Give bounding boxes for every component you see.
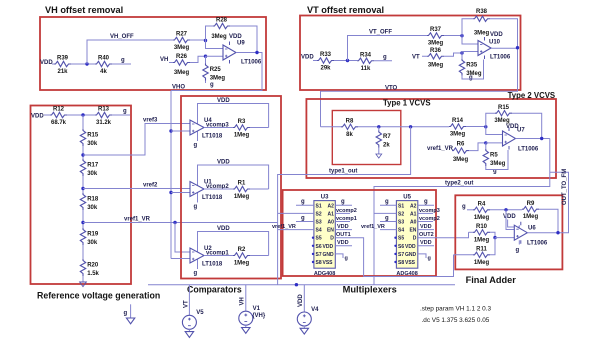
svg-text:g: g [301, 215, 305, 221]
svg-text:VDD: VDD [298, 294, 304, 307]
net label OUT2 [419, 232, 434, 238]
wire R35 to U10 V- [462, 60, 484, 80]
resistor R12 [50, 107, 67, 126]
net label VT_OFF [369, 30, 392, 36]
svg-text:VDD: VDD [490, 32, 503, 38]
wire R5 to U7 V- [486, 150, 508, 170]
svg-text:VT offset removal: VT offset removal [307, 5, 384, 15]
svg-text:vref1_VR: vref1_VR [272, 224, 296, 230]
net label VDD supply U6 [503, 214, 516, 220]
svg-text:29k: 29k [320, 66, 331, 72]
voltage source V4 [297, 307, 319, 326]
svg-text:A1: A1 [327, 211, 334, 217]
net label OUT1 [336, 232, 351, 238]
wire node A to U9 in+ [206, 41, 224, 49]
op-amp U9 [223, 41, 262, 66]
svg-text:A2: A2 [410, 203, 417, 209]
svg-text:3Meg: 3Meg [174, 45, 190, 51]
net label VT rotated [183, 300, 189, 308]
voltage source V5 [182, 310, 204, 329]
wire R40 to g [112, 63, 131, 65]
wire VDD loop U2 [198, 232, 269, 270]
net label VH rotated [240, 297, 246, 305]
svg-text:3Meg: 3Meg [174, 70, 190, 76]
wire U7 output [516, 138, 550, 140]
wire VDD to R12 [44, 114, 50, 116]
wire g stub U3 A2 [335, 204, 352, 206]
wire R2 to loop [250, 255, 269, 257]
svg-text:R17: R17 [87, 163, 99, 169]
svg-text:g: g [194, 271, 198, 277]
svg-text:R6: R6 [457, 142, 465, 148]
wire R37 to node C [444, 35, 462, 37]
svg-text:Type 2 VCVS: Type 2 VCVS [508, 91, 556, 100]
svg-text:VSS: VSS [405, 260, 416, 266]
svg-text:LT1006: LT1006 [241, 60, 262, 66]
junction R39-R40 [85, 62, 88, 65]
wire vcomp3 stub U5 A1 [418, 212, 433, 214]
svg-text:g: g [341, 199, 345, 205]
wire U9 output and VHO net [171, 53, 262, 91]
net label VDD U3 pin6 [337, 240, 349, 246]
svg-text:2k: 2k [383, 143, 390, 149]
svg-text:g: g [194, 143, 198, 149]
svg-text:R11: R11 [476, 247, 487, 253]
resistor R7 [376, 131, 391, 149]
junction U7 output [540, 137, 543, 140]
net label VT [412, 55, 420, 61]
wire R20 to ground [82, 276, 84, 282]
wire vref3 net [83, 124, 190, 156]
svg-text:LT1006: LT1006 [490, 55, 511, 61]
svg-text:LT1006: LT1006 [527, 241, 548, 247]
ground net label g below R5 [493, 169, 497, 175]
ground net label g U5 S1 [385, 199, 389, 205]
annotation box Multiplexers [283, 190, 436, 276]
wire R15 to R17 [82, 146, 84, 159]
wire node D to R35 [461, 53, 463, 59]
svg-text:1Meg: 1Meg [234, 261, 250, 267]
svg-text:11k: 11k [361, 66, 371, 72]
wire R15 feedback [486, 113, 542, 138]
svg-text:R15: R15 [87, 133, 99, 139]
svg-text:R2: R2 [238, 247, 246, 253]
svg-text:VT_OFF: VT_OFF [369, 30, 392, 36]
svg-text:S6: S6 [316, 244, 322, 250]
wire V1 to ground [245, 325, 247, 327]
net label VDD U5 pin6 [420, 240, 432, 246]
ground net label g below R35 [469, 75, 473, 81]
wire g stub U3 S1 [296, 204, 314, 206]
resistor R36 [427, 48, 444, 69]
wire R19 to R20 [82, 245, 84, 259]
multiplexer U3 ADG408 [312, 195, 336, 278]
wire node B to R25 [205, 56, 207, 63]
svg-text:VDD: VDD [31, 114, 44, 120]
title Final Adder [466, 275, 517, 285]
wire R13 to g [112, 114, 130, 116]
wire VDD stub U6 [508, 220, 520, 228]
svg-text:A0: A0 [327, 220, 334, 226]
svg-text:R9: R9 [527, 201, 535, 207]
title Reference voltage generation [37, 291, 160, 301]
svg-text:R37: R37 [430, 27, 442, 33]
svg-text:S2: S2 [316, 211, 322, 217]
wire bus to U1 in [171, 192, 190, 194]
wire OUT2 to R10 [469, 231, 474, 233]
resistor R13 [95, 107, 112, 126]
svg-text:EN: EN [327, 228, 334, 234]
wire VT_OFF net [348, 36, 428, 61]
wire VDD loop U4 [198, 104, 269, 142]
svg-text:g: g [124, 311, 128, 317]
annotation box Type 1 VCVS [332, 111, 401, 165]
svg-text:R7: R7 [383, 134, 391, 140]
svg-text:R27: R27 [176, 32, 188, 38]
svg-text:30k: 30k [87, 240, 98, 246]
wire bus to U2 in [171, 258, 190, 260]
svg-text:VDD: VDD [229, 34, 242, 40]
net label VH [160, 57, 168, 63]
net label type2_out [445, 180, 473, 186]
svg-text:g: g [123, 109, 127, 115]
svg-text:3Meg: 3Meg [428, 63, 444, 69]
wire R25 to g [205, 81, 207, 84]
op-amp U6 [514, 222, 548, 247]
svg-text:.dc V5 1.375 3.625 0.05: .dc V5 1.375 3.625 0.05 [422, 317, 490, 324]
svg-text:4k: 4k [100, 69, 107, 75]
resistor R4 [473, 202, 490, 221]
wire OUT1 to R11 [454, 254, 474, 256]
wire VDD stub U5 pin6 [418, 245, 434, 247]
svg-text:U3: U3 [321, 195, 329, 201]
wire VDD stub U3 EN [335, 229, 352, 231]
svg-text:vref1_VR: vref1_VR [124, 217, 151, 223]
wire R17 to R18 [82, 176, 84, 193]
svg-text:D: D [413, 236, 417, 242]
wire R12 node to R15 [82, 115, 84, 129]
net label vref1_VR [427, 146, 454, 152]
svg-text:VH: VH [240, 297, 246, 305]
svg-text:1Meg: 1Meg [523, 214, 539, 220]
wire node E to U7 in+ [486, 127, 503, 135]
net label VHO [172, 85, 185, 91]
net label VDD [301, 55, 314, 61]
net label VDD U5 EN [420, 224, 432, 230]
net label VDD [40, 60, 53, 66]
svg-text:D: D [330, 236, 334, 242]
resistor R11 [473, 247, 490, 266]
svg-text:S4: S4 [316, 228, 322, 234]
net label vref2 [143, 183, 158, 189]
svg-text:1Meg: 1Meg [474, 215, 490, 221]
svg-text:S3: S3 [398, 220, 404, 226]
title Type 1 VCVS [383, 99, 431, 108]
junction R8-R7 [377, 125, 380, 128]
ground net label g U2 [194, 271, 198, 277]
resistor R8 [341, 119, 358, 138]
wire R34 to g [374, 60, 392, 62]
svg-text:3Meg: 3Meg [474, 31, 490, 37]
wire R39 to R40 [71, 63, 95, 65]
junction node B [204, 55, 207, 58]
svg-text:30k: 30k [87, 141, 98, 147]
wire type1_out to U3 S2 [278, 212, 314, 214]
junction bus U4 [169, 129, 172, 132]
resistor R14 [449, 118, 466, 137]
wire V1 to rail [245, 285, 247, 314]
svg-text:R5: R5 [490, 153, 498, 159]
resistor R35 [459, 59, 482, 77]
wire VDD stub U3 pin6 [335, 245, 352, 247]
net label VDD [31, 114, 44, 120]
annotation box Final Adder [455, 195, 562, 269]
svg-text:VT: VT [183, 300, 189, 308]
svg-text:U9: U9 [237, 41, 245, 47]
svg-text:R28: R28 [216, 18, 228, 24]
ground net label g U5 S3 [385, 215, 389, 221]
comparator U4 [190, 118, 229, 140]
svg-text:A1: A1 [410, 211, 417, 217]
svg-text:g: g [301, 199, 305, 205]
junction vref2 tap [81, 187, 84, 190]
wire OUT2 net U5 D [418, 232, 469, 237]
resistor R26 [173, 54, 190, 76]
op-amp U10 [478, 37, 511, 61]
svg-text:U5: U5 [403, 195, 411, 201]
svg-text:S6: S6 [398, 244, 404, 250]
svg-text:Comparators: Comparators [187, 285, 242, 295]
annotation box VT offset removal [300, 16, 521, 91]
svg-text:R39: R39 [57, 56, 69, 62]
ground net label g U3 A2 [341, 199, 345, 205]
resistor R25 [203, 64, 226, 82]
resistor R18 [80, 193, 99, 211]
svg-text:g: g [469, 75, 473, 81]
wire VTO to R8 [321, 126, 342, 128]
resistor R34 [357, 52, 374, 71]
wire VH_OFF net [87, 40, 173, 64]
wire bus to U4 in [171, 130, 190, 132]
svg-text:R25: R25 [210, 67, 222, 73]
svg-text:S5: S5 [398, 236, 404, 242]
net label VTO [385, 85, 398, 91]
ground net label g [383, 55, 387, 61]
svg-text:S8: S8 [316, 260, 322, 266]
svg-text:R20: R20 [87, 263, 99, 269]
wire U6 V- stub [518, 240, 520, 244]
resistor R6 [452, 142, 469, 163]
svg-text:31.2k: 31.2k [96, 120, 112, 126]
net label vref1_VR [124, 217, 151, 223]
annotation box Comparators [181, 96, 281, 279]
resistor R39 [54, 56, 71, 75]
wire V5 to ground [188, 329, 190, 331]
spice directive step [420, 306, 491, 313]
svg-text:VTO: VTO [385, 85, 398, 91]
svg-text:LT1006: LT1006 [518, 147, 539, 153]
svg-text:3Meg: 3Meg [211, 34, 227, 40]
svg-text:V5: V5 [196, 310, 204, 316]
wire VDD to R33 [313, 60, 317, 62]
svg-text:VDD: VDD [323, 244, 334, 250]
svg-text:g: g [385, 199, 389, 205]
ground below V1 [242, 328, 250, 334]
junction U9 output [255, 51, 258, 54]
junction node G [504, 208, 507, 211]
svg-text:R26: R26 [176, 54, 188, 60]
svg-text:S8: S8 [398, 260, 404, 266]
voltage source V1 [239, 306, 266, 325]
svg-text:vref1_VR: vref1_VR [427, 146, 454, 152]
ground below V5 [185, 332, 193, 338]
wire R27 to node A [190, 39, 206, 41]
resistor R3 [233, 119, 250, 139]
svg-text:g: g [462, 204, 466, 210]
svg-text:8k: 8k [346, 132, 353, 138]
svg-text:vref1_VR: vref1_VR [361, 224, 385, 230]
wire R12 to R13 [67, 114, 95, 116]
svg-text:Multiplexers: Multiplexers [343, 285, 397, 295]
resistor R19 [80, 228, 99, 246]
wire vcomp1 stub U3 A0 [335, 221, 350, 223]
title Comparators [187, 285, 242, 295]
svg-text:S1: S1 [398, 203, 404, 209]
svg-text:VDD: VDD [217, 226, 230, 232]
wire R8 to R14 [358, 126, 449, 128]
wire vref2 net [83, 188, 190, 190]
net label VDD U3 EN [337, 224, 349, 230]
svg-text:VH: VH [160, 57, 168, 63]
net label type1_out [329, 169, 357, 175]
svg-text:VDD: VDD [506, 124, 519, 130]
wire R6 to node F [469, 143, 486, 151]
svg-text:GND: GND [323, 252, 335, 258]
svg-text:VSS: VSS [323, 260, 334, 266]
resistor R2 [233, 247, 250, 267]
svg-text:OUT_TO_FM: OUT_TO_FM [562, 169, 568, 205]
title Multiplexers [343, 285, 397, 295]
svg-text:VDD: VDD [503, 214, 516, 220]
wire VDD rail [148, 284, 455, 286]
resistor R33 [317, 52, 334, 71]
svg-text:EN: EN [409, 228, 416, 234]
svg-text:3Meg: 3Meg [428, 41, 444, 47]
svg-text:vcomp2: vcomp2 [419, 216, 440, 222]
wire R10 to node H [490, 232, 495, 237]
annotation box Reference voltage generation [31, 106, 132, 285]
wire U10 output and VTO net [321, 48, 518, 127]
wire node D to U10 in- [462, 52, 478, 54]
net label VDD supply U4 [217, 98, 230, 104]
svg-text:3Meg: 3Meg [490, 161, 506, 167]
wire U4 output to R3 [204, 127, 233, 129]
ground net label g U1 [194, 204, 198, 210]
resistor R1 [233, 181, 250, 201]
ground below R7 [376, 154, 382, 158]
annotation box VH offset removal [40, 17, 266, 90]
wire R11 to node H [490, 238, 495, 255]
annotation box Type 2 VCVS [306, 99, 556, 178]
wire vref1_VR to U3 S4 [278, 229, 314, 231]
wire type2_out net [374, 139, 550, 285]
resistor R17 [80, 159, 99, 177]
wire vref1_VR to U5 S4 [380, 229, 396, 231]
wire node G to U6 in+ [506, 210, 514, 230]
wire V4 to rail [303, 285, 305, 314]
wire g stub U5 S3 [380, 221, 396, 223]
net label VDD supply U10 [490, 32, 503, 38]
wire g stub U5 GND [418, 254, 426, 258]
ground net label g U3 GND [345, 256, 348, 262]
svg-text:LT1018: LT1018 [202, 134, 223, 140]
svg-text:1Meg: 1Meg [234, 194, 250, 200]
wire U2 output to R2 [204, 255, 233, 257]
svg-text:Final Adder: Final Adder [466, 275, 517, 285]
wire R26 to node B [190, 56, 206, 62]
junction U6 output [556, 231, 559, 234]
svg-text:V1: V1 [253, 306, 261, 312]
net label vcomp2 U3 [336, 208, 357, 214]
wire R1 to loop [250, 188, 269, 190]
svg-text:Reference voltage generation: Reference voltage generation [37, 291, 160, 301]
wire g stub U3 GND [335, 254, 343, 258]
svg-text:R4: R4 [478, 202, 486, 208]
net label vcomp3 U5 [419, 208, 440, 214]
svg-text:g: g [424, 199, 428, 205]
wire R3 to loop [250, 127, 269, 129]
svg-text:VDD: VDD [217, 98, 230, 104]
wire VDD to R39 [52, 63, 54, 65]
junction R33-R34 [346, 59, 349, 62]
net label VDD rotated [298, 294, 304, 307]
junction node D [460, 51, 463, 54]
wire type1_out net [278, 127, 411, 285]
svg-text:VDD: VDD [337, 240, 349, 246]
resistor R40 [95, 56, 112, 75]
wire type2_out to U5 S2 [374, 212, 396, 214]
svg-text:R35: R35 [466, 62, 478, 68]
svg-text:VT: VT [412, 55, 420, 61]
svg-text:R14: R14 [452, 118, 464, 124]
ground flag arrow [126, 318, 134, 324]
svg-text:R10: R10 [476, 224, 488, 230]
svg-text:1Meg: 1Meg [234, 133, 250, 139]
net label vref1_VR U5 S4 [361, 224, 385, 230]
svg-text:vcomp1: vcomp1 [336, 216, 357, 222]
resistor R15 [494, 105, 512, 124]
title VH offset removal [45, 5, 123, 15]
svg-text:S7: S7 [398, 252, 404, 258]
svg-text:S7: S7 [316, 252, 322, 258]
resistor R20 [80, 259, 99, 277]
wire R28 feedback [206, 26, 258, 53]
ground net label g [123, 109, 127, 115]
svg-text:vcomp3: vcomp3 [419, 208, 440, 214]
svg-text:R15: R15 [498, 105, 510, 111]
svg-text:.step param VH 1.1 2 0.3: .step param VH 1.1 2 0.3 [420, 306, 491, 313]
svg-text:3Meg: 3Meg [453, 157, 469, 163]
wire R9 to output [539, 209, 558, 233]
svg-text:g: g [516, 248, 520, 254]
svg-text:VDD: VDD [217, 160, 230, 166]
junction bus U1 [169, 191, 172, 194]
ground net label g U6 [516, 248, 520, 254]
wire R38 feedback [462, 19, 518, 48]
net label vcomp1 U3 [336, 216, 357, 222]
ground net label g U5 A2 [424, 199, 428, 205]
wire VH to R26 [169, 62, 173, 64]
